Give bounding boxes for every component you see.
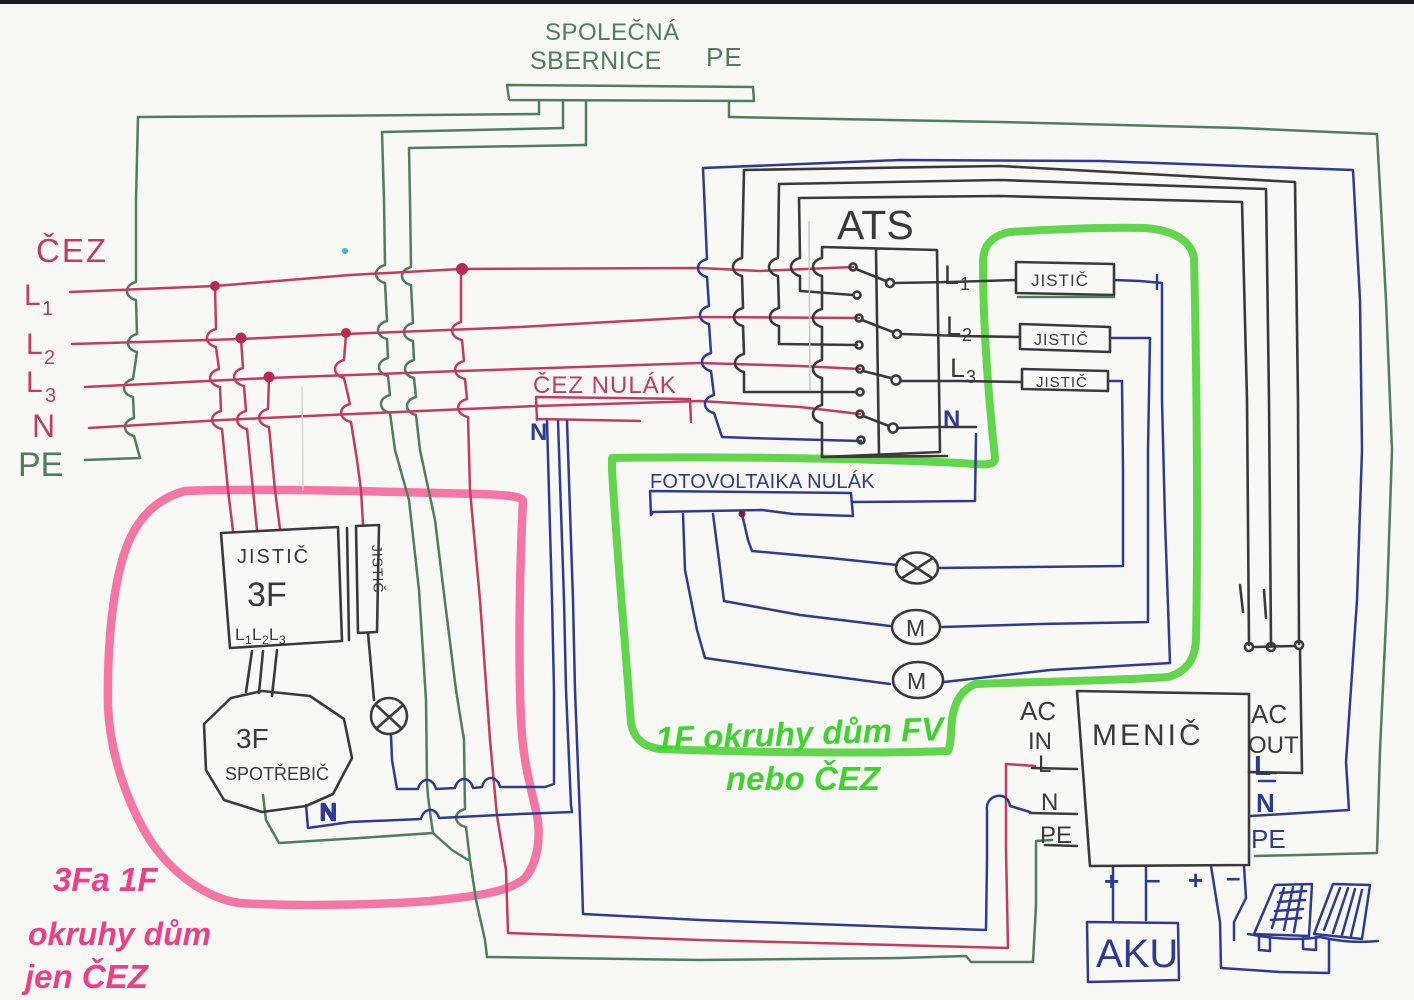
svg-text:N: N	[1256, 788, 1275, 818]
svg-text:jen ČEZ: jen ČEZ	[21, 957, 150, 995]
ATS L1 switch: contacts and blade	[850, 264, 857, 271]
breaker jistic1 box	[1016, 262, 1114, 295]
motor M2	[893, 662, 943, 698]
junction circles PV-L riser	[1245, 643, 1253, 651]
wire PV plus lead	[1211, 866, 1329, 973]
cyan speck	[342, 248, 348, 254]
motor M1	[892, 610, 940, 644]
svg-text:ČEZ: ČEZ	[36, 232, 108, 269]
svg-text:OUT: OUT	[1248, 732, 1299, 759]
CEZ NULAK busbar box	[536, 397, 691, 422]
svg-text:JISTIČ: JISTIČ	[1031, 271, 1089, 290]
wire PE vertical G2 (hops over L1,L2,L3,N, hook over N-bus) down to bottom	[402, 148, 487, 957]
wire PE from 3F spotrebic to G1	[263, 795, 433, 843]
svg-text:L: L	[946, 311, 961, 341]
wire ATS N output to PV nulak riser	[898, 427, 976, 428]
junction dot L1-a	[210, 281, 220, 291]
svg-text:SBERNICE: SBERNICE	[530, 47, 662, 75]
green highlighter loop around 1F PV circuits	[612, 228, 1197, 753]
wire PE horizontal 3	[409, 145, 586, 148]
wire PE around right side to MENIC AC OUT PE	[729, 117, 1392, 856]
wire L2 line	[72, 317, 859, 344]
MENIC AC IN N terminal	[1030, 813, 1077, 814]
svg-text:SPOLEČNÁ: SPOLEČNÁ	[545, 18, 680, 46]
pencil faint line	[809, 222, 810, 390]
wire N line	[89, 401, 860, 428]
wire PV nulak drop to motor M1	[713, 514, 890, 626]
svg-text:nebo ČEZ: nebo ČEZ	[726, 759, 882, 797]
wire red vertical V1 from L1 junction to JISTIC 3F (hops L2,L3,N)	[207, 286, 233, 531]
svg-text:3: 3	[966, 367, 976, 387]
PV panel foot 1	[1259, 936, 1270, 951]
frame wire middle: ATS L2 lower contact loop via top	[769, 180, 1271, 646]
wire PV nulak drop to motor M2	[683, 514, 890, 684]
wire N drop 3 from CEZ nulak down to bottom bus and MENIC AC IN N	[567, 421, 1030, 930]
wire jistic1 output lead	[1114, 280, 1162, 283]
MENIC box	[1077, 691, 1249, 866]
wire lamp2 to jistic L3 vertical	[938, 381, 1123, 568]
wire L1 line	[70, 267, 853, 292]
ATS N switch: contacts and blade	[857, 411, 864, 418]
NAVY NETWORK	[306, 160, 1378, 982]
PE busbar (SPOLECNA SBERNICE PE)	[507, 85, 754, 101]
wire jistic3 output lead	[1108, 380, 1122, 383]
svg-text:MENIČ: MENIČ	[1092, 718, 1204, 752]
svg-text:N: N	[1041, 789, 1058, 816]
svg-text:L: L	[1038, 751, 1051, 778]
wire ATS L2 output to jistic2	[902, 334, 1020, 337]
MENIC AC IN L terminal	[1032, 768, 1077, 769]
wire 1F jistic to lamp1	[368, 633, 374, 700]
wire PE horizontal to left vertical	[138, 114, 539, 117]
svg-text:L: L	[950, 353, 965, 383]
lamp2 PV (circle with X)	[896, 553, 938, 584]
svg-text:AC: AC	[1251, 699, 1287, 729]
wire L3 line	[85, 363, 860, 387]
wire M2 to jistic L1 vertical	[944, 283, 1170, 682]
wire red vertical V4 from L2 junction to 1F JISTIC (hops L3,N)	[335, 334, 363, 524]
svg-text:JISTIČ: JISTIČ	[369, 545, 387, 594]
wire N drop 2 from CEZ nulak to N bus	[558, 421, 572, 812]
svg-text:1: 1	[960, 274, 970, 294]
svg-text:L: L	[24, 279, 41, 312]
wire ATS L3 output to jistic3	[901, 381, 1022, 382]
svg-text:AC: AC	[1020, 696, 1056, 726]
wire jistic2 output lead	[1110, 337, 1150, 340]
svg-text:–: –	[1226, 862, 1240, 892]
svg-text:L: L	[235, 625, 244, 644]
pen slip ticks next to risers	[1240, 585, 1266, 618]
svg-text:JISTIČ: JISTIČ	[1034, 330, 1089, 349]
ATS box	[813, 247, 940, 457]
ATS L3 switch: contacts and blade	[857, 366, 864, 373]
svg-text:3: 3	[279, 633, 286, 647]
svg-text:+: +	[1104, 866, 1119, 896]
svg-text:–: –	[1146, 864, 1160, 894]
PV panels base wavy line	[1248, 934, 1378, 942]
wire PE busbar stub 3	[585, 101, 588, 145]
scanner edge strip	[0, 0, 1414, 4]
svg-text:3Fa 1F: 3Fa 1F	[53, 861, 158, 898]
svg-text:L: L	[252, 625, 261, 644]
3F spotrebic blob	[204, 691, 352, 812]
frame wire outer: ATS L3 lower contact loop via top	[733, 166, 1299, 644]
svg-text:PE: PE	[1040, 822, 1072, 849]
wire PE bottom bus to MENIC PE	[487, 840, 1052, 962]
wire AKU plus lead	[1112, 866, 1115, 920]
svg-text:+: +	[1188, 865, 1203, 895]
svg-text:N: N	[320, 799, 337, 825]
wire PE busbar stub 1	[538, 101, 541, 114]
svg-text:SPOTŘEBIČ: SPOTŘEBIČ	[225, 763, 329, 784]
pink highlighter loop around 3F house circuits	[108, 490, 539, 905]
big navy frame: ATS N lower contact around top to MENIC AC OUT N	[698, 160, 1362, 816]
svg-text:M: M	[907, 668, 926, 694]
wire PE busbar stub 2	[562, 101, 565, 128]
svg-text:JISTIČ: JISTIČ	[237, 545, 310, 568]
svg-text:PE: PE	[1251, 824, 1286, 854]
svg-text:N: N	[943, 406, 960, 433]
svg-text:okruhy dům: okruhy dům	[28, 916, 211, 952]
wires JISTIC 3F to 3F spotrebic	[246, 650, 277, 696]
svg-text:L: L	[944, 260, 959, 290]
junction dot L3-a	[264, 372, 275, 383]
BLACK PEN	[204, 166, 1303, 866]
wire red vertical V2 from L2 junction to JISTIC 3F (hops L3,N)	[234, 339, 257, 530]
junction dot on PV nulak	[739, 511, 746, 518]
svg-text:N: N	[530, 419, 547, 446]
junction dot L1-b	[456, 263, 468, 275]
frame wire inner: ATS L1 lower contact loop via top	[791, 196, 1249, 645]
svg-text:M: M	[906, 615, 925, 641]
wire red vertical V5 from L1 junction down to MENIC AC IN L (hops L2,L3,N)	[452, 269, 1035, 948]
breaker jistic2 box	[1020, 324, 1110, 352]
svg-text:3: 3	[45, 385, 56, 407]
wire N drop 1 from CEZ nulak to house lamp (hops over greens and red)	[391, 421, 554, 789]
wire house N bus from 3F spotrebic	[306, 805, 572, 828]
wire PE busbar right stub	[728, 101, 731, 117]
junction dot L2-b	[341, 328, 351, 338]
svg-text:1: 1	[42, 298, 53, 320]
svg-text:L: L	[26, 366, 43, 399]
wire M1 to jistic L2 vertical	[942, 338, 1150, 627]
wire PV nulak to ATS N via right riser	[852, 434, 976, 502]
svg-text:1: 1	[245, 633, 252, 647]
wire PE left vertical to PE label (with hops over L1,L2,L3,N)	[124, 117, 140, 458]
svg-text:PE: PE	[706, 42, 743, 72]
svg-text:PE: PE	[18, 446, 63, 484]
wire red vertical V3 from L3 junction to JISTIC 3F (hops N)	[259, 378, 280, 529]
svg-text:ATS: ATS	[837, 202, 914, 248]
breaker jistic3 box	[1022, 369, 1108, 391]
AKU box	[1087, 922, 1179, 982]
CRIMSON CEZ NETWORK	[70, 267, 1035, 948]
PV panel foot 2	[1303, 937, 1316, 950]
MENIC AC OUT L terminal	[1249, 772, 1276, 773]
svg-text:3F: 3F	[236, 723, 269, 754]
wire ATS L1 output to jistic1	[895, 280, 1016, 283]
svg-text:L: L	[269, 625, 278, 644]
wire PE label lead	[85, 458, 140, 460]
svg-text:3F: 3F	[247, 576, 287, 614]
svg-text:L: L	[26, 328, 43, 361]
tick at jistic1 corner	[1156, 275, 1159, 289]
wire PV minus lead	[1234, 866, 1246, 940]
wire PE vertical G1 (hops over L1,L2,L3,N) down to house	[376, 132, 468, 860]
svg-text:AKU: AKU	[1096, 932, 1178, 976]
PV panel 2 (hatched)	[1314, 884, 1370, 939]
svg-text:2: 2	[262, 633, 269, 647]
ATS L2 switch: contacts and blade	[856, 315, 863, 322]
FOTOVOLTAIKA NULAK busbar box	[650, 491, 853, 516]
svg-text:2: 2	[44, 347, 55, 369]
svg-text:FOTOVOLTAIKA NULÁK: FOTOVOLTAIKA NULÁK	[650, 470, 875, 493]
ATS inner vertical	[876, 250, 879, 455]
svg-text:JISTIČ: JISTIČ	[1036, 374, 1088, 391]
svg-text:2: 2	[962, 325, 972, 345]
label L arrow stroke	[1259, 780, 1275, 783]
MENIC AC IN PE terminal	[1045, 845, 1077, 846]
svg-text:N: N	[32, 408, 55, 444]
wire PE horizontal 2	[382, 128, 563, 132]
wire joining riser junctions	[1254, 646, 1294, 647]
wire AKU minus lead	[1145, 866, 1148, 920]
svg-text:ČEZ NULÁK: ČEZ NULÁK	[533, 371, 677, 399]
lamp1 house (circle with X)	[371, 698, 407, 734]
breaker JISTIC 3F box	[221, 527, 342, 648]
junction dot L2-a	[236, 333, 247, 344]
wire riser down to MENIC AC OUT L	[1249, 650, 1302, 773]
wire PV nulak drop to lamp2	[742, 514, 897, 565]
breaker 1F JISTIC vertical box	[356, 525, 379, 633]
PV panel 1 (crosshatched)	[1254, 884, 1312, 936]
